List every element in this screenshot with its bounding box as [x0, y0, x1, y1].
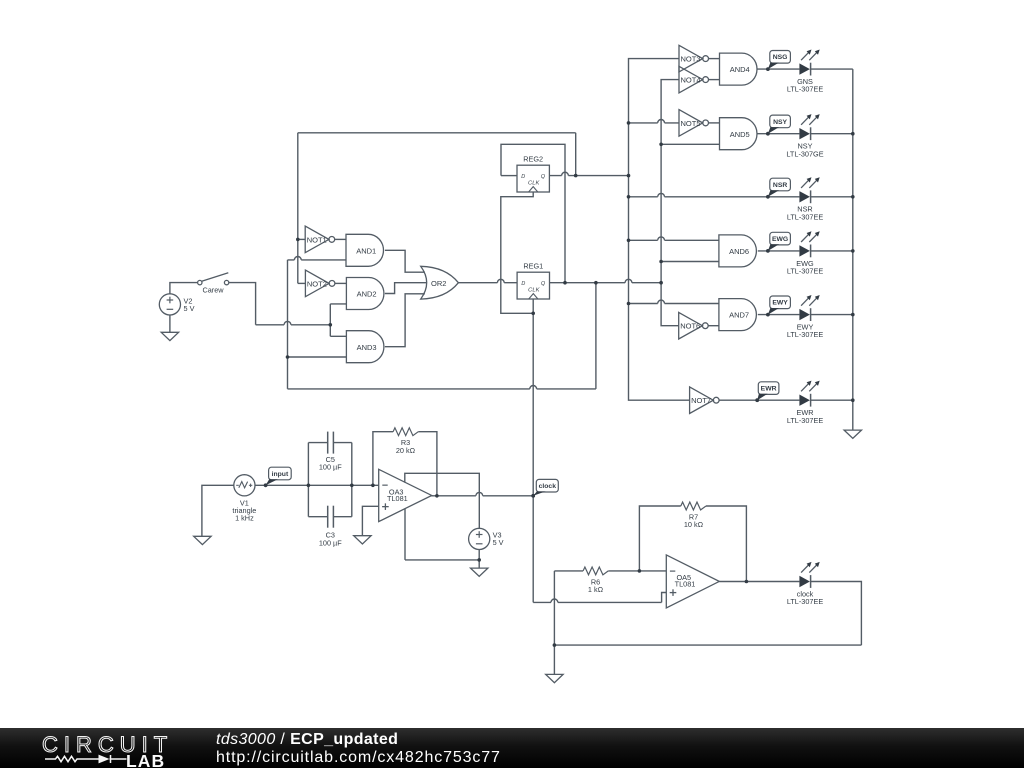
svg-text:LTL-307EE: LTL-307EE: [787, 330, 824, 339]
svg-text:Q: Q: [541, 281, 546, 287]
svg-text:OR2: OR2: [431, 279, 446, 288]
svg-text:AND1: AND1: [356, 246, 376, 255]
svg-text:EWR: EWR: [761, 386, 777, 393]
svg-text:LTL-307EE: LTL-307EE: [787, 597, 824, 606]
svg-text:NSG: NSG: [773, 54, 788, 61]
svg-text:20 kΩ: 20 kΩ: [396, 446, 416, 455]
svg-text:TL081: TL081: [387, 494, 408, 503]
svg-text:Q: Q: [541, 174, 546, 180]
svg-text:LTL-307EE: LTL-307EE: [787, 85, 824, 94]
svg-text:AND5: AND5: [730, 130, 750, 139]
svg-text:NOT6: NOT6: [680, 322, 700, 331]
svg-text:AND3: AND3: [357, 343, 377, 352]
svg-text:5 V: 5 V: [184, 304, 195, 313]
svg-text:NOT3: NOT3: [680, 55, 700, 64]
svg-text:CLK: CLK: [528, 180, 540, 186]
svg-text:D: D: [521, 281, 525, 287]
svg-text:REG1: REG1: [523, 262, 543, 271]
svg-text:LTL-307EE: LTL-307EE: [787, 212, 824, 221]
svg-text:NOT7: NOT7: [691, 396, 711, 405]
svg-text:EWG: EWG: [772, 236, 788, 243]
svg-text:Carew: Carew: [202, 285, 224, 294]
svg-text:TL081: TL081: [675, 580, 696, 589]
svg-text:AND6: AND6: [729, 247, 749, 256]
svg-text:AND7: AND7: [729, 311, 749, 320]
svg-text:LTL-307EE: LTL-307EE: [787, 416, 824, 425]
svg-text:D: D: [521, 174, 525, 180]
svg-text:1 kHz: 1 kHz: [235, 514, 254, 523]
svg-text:NOT1: NOT1: [307, 235, 327, 244]
svg-text:1 kΩ: 1 kΩ: [588, 585, 604, 594]
svg-text:LTL-307EE: LTL-307EE: [787, 267, 824, 276]
svg-text:5 V: 5 V: [493, 538, 504, 547]
svg-text:100 µF: 100 µF: [319, 463, 342, 472]
svg-text:input: input: [272, 471, 289, 478]
svg-text:NSY: NSY: [773, 119, 787, 126]
svg-text:NOT5: NOT5: [680, 119, 700, 128]
svg-text:NSR: NSR: [773, 182, 787, 189]
svg-text:100 µF: 100 µF: [319, 538, 342, 547]
svg-text:NOT4: NOT4: [680, 76, 700, 85]
svg-text:10 kΩ: 10 kΩ: [684, 520, 704, 529]
svg-text:NOT2: NOT2: [307, 279, 327, 288]
svg-text:LTL-307GE: LTL-307GE: [786, 149, 823, 158]
svg-text:REG2: REG2: [523, 155, 543, 164]
svg-text:EWY: EWY: [772, 300, 788, 307]
svg-text:clock: clock: [539, 483, 557, 490]
svg-text:AND2: AND2: [357, 290, 377, 299]
svg-text:CLK: CLK: [528, 287, 540, 293]
svg-text:AND4: AND4: [730, 65, 750, 74]
